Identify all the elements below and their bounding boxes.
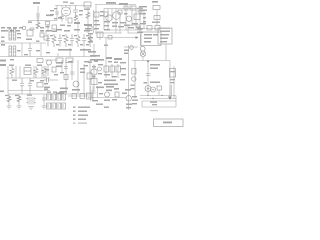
resistor R22 (17, 96, 21, 102)
box B1 (56, 58, 63, 63)
capacitor C7 (138, 8, 142, 12)
resistor R5 (118, 10, 122, 14)
relay box K1 (158, 28, 172, 44)
text (0, 91, 4, 93)
wire (45, 59, 58, 61)
labels (9, 65, 14, 66)
switch bank S1 labels (47, 92, 51, 93)
ground (17, 106, 22, 109)
marks (80, 68, 85, 70)
wire (7, 78, 9, 94)
capacitor C26 (60, 14, 64, 22)
capacitor C18 (20, 78, 24, 91)
wire (147, 61, 149, 96)
labels (84, 61, 89, 62)
text inside box top (150, 64, 160, 66)
wire (142, 96, 176, 108)
tube V4 (126, 16, 131, 21)
relay coil on line (108, 36, 112, 40)
resistor R15 (132, 69, 136, 75)
capacitor C4 (73, 6, 78, 19)
parts row wire (68, 95, 92, 97)
ground (7, 106, 12, 109)
note rows (144, 34, 152, 36)
jack J0 (22, 26, 26, 30)
wire stubs (22, 91, 30, 95)
wire (93, 10, 95, 33)
capacitor C6 (124, 6, 128, 10)
arrowhead (136, 36, 139, 39)
transistor Q1 (73, 81, 79, 87)
resistor R9 box (27, 30, 33, 36)
jack J2 (47, 60, 52, 65)
diode D1 (147, 26, 152, 31)
resistor R21 (7, 96, 11, 102)
capacitor C8 (154, 16, 160, 20)
capacitor C14 (58, 34, 62, 47)
transformer T3 box (24, 68, 31, 75)
capacitor C5 (104, 12, 108, 17)
cluster box (37, 59, 43, 63)
transformer T2 box (130, 6, 136, 10)
capacitor C19 (28, 78, 32, 91)
node ANT text (33, 2, 40, 4)
ground (28, 107, 34, 110)
wire (42, 30, 46, 36)
title block (154, 119, 184, 127)
text rows (88, 51, 96, 53)
value labels row (1, 27, 5, 29)
resistor R26 (68, 18, 72, 23)
switch bank S2 (47, 103, 51, 109)
wire (169, 61, 171, 99)
wire (173, 66, 175, 99)
resistor R6 (134, 14, 140, 20)
junction (161, 95, 162, 96)
marks (88, 33, 93, 35)
box B3 (170, 69, 176, 78)
capacitor C28 (46, 22, 50, 26)
text (44, 87, 50, 89)
labels (112, 99, 117, 100)
wire (95, 4, 136, 6)
text rows (58, 49, 72, 51)
text specks (94, 20, 99, 21)
capacitor C15 (70, 34, 74, 47)
wire stubs (58, 44, 94, 57)
note text line 1 (139, 6, 147, 7)
coil L4 (9, 29, 12, 40)
wire (134, 61, 136, 99)
arrow (168, 97, 172, 100)
wire (140, 34, 142, 46)
value label (46, 26, 50, 28)
switch bank S1 (47, 94, 51, 100)
resistor R14 (97, 32, 103, 38)
crystal Y1 (153, 6, 160, 10)
component marks (106, 57, 112, 59)
legend line 4 (73, 119, 76, 120)
resistor R19 (91, 79, 97, 85)
resistor R18 (42, 66, 46, 78)
wire (box top) (132, 60, 170, 62)
extra value labels (100, 11, 104, 12)
coil L5 (13, 29, 16, 40)
lamp L3 (132, 77, 136, 81)
capacitor C12 (44, 36, 48, 40)
wires (106, 64, 118, 78)
resistor R1 (36, 22, 40, 29)
tube V2 (106, 15, 112, 21)
wire (arrow to power block) (104, 37, 137, 39)
text (150, 82, 160, 84)
wire (104, 6, 144, 33)
resistor R27 (115, 92, 119, 97)
wire (62, 6, 70, 10)
labels (5, 95, 9, 96)
wire (87, 7, 89, 33)
marks right (132, 96, 137, 97)
resistor R24 (80, 94, 85, 99)
marks bottom (60, 88, 68, 90)
wire (8, 90, 50, 92)
terminal box TB1 (141, 32, 161, 46)
wire (140, 95, 176, 97)
tube V1 (62, 7, 71, 16)
labels around tube (63, 2, 68, 3)
resistor R28 (74, 15, 78, 21)
value labels (26, 39, 32, 41)
capacitor C21 (70, 72, 75, 74)
wire (128, 45, 130, 110)
capacitor C13 (46, 34, 50, 47)
wire (37, 6, 39, 28)
label text (106, 2, 116, 4)
wire (47, 65, 49, 76)
junction (37, 20, 38, 21)
transistor Q4 (126, 96, 131, 101)
meter M1 (140, 46, 145, 51)
note text line 3 (139, 13, 145, 14)
resistor R12 (76, 34, 80, 47)
resistor R4 (94, 12, 99, 17)
component cluster (106, 86, 114, 88)
cluster box (87, 73, 92, 79)
capacitor C20 (64, 67, 68, 69)
wire (95, 32, 122, 34)
shield can box (128, 25, 140, 33)
legend line 2 (73, 111, 76, 112)
capacitor C2 (29, 27, 35, 31)
rectifier V6 (151, 87, 156, 92)
cluster box (37, 83, 43, 88)
wire (56, 6, 58, 21)
wire (124, 46, 138, 48)
wire (9, 94, 19, 106)
resistor R2 (52, 25, 57, 29)
labels (12, 80, 17, 81)
wire (142, 57, 144, 61)
wire (55, 5, 91, 7)
wire (141, 28, 170, 30)
box B4 (87, 93, 93, 99)
legend line 5 (73, 123, 76, 124)
junction arrow on box top (147, 61, 150, 63)
capacitor C17 (146, 74, 151, 76)
junction (152, 98, 153, 99)
wire (95, 5, 97, 34)
wire (104, 8, 143, 10)
capacitor C27 (91, 91, 96, 93)
wire (28, 20, 57, 22)
box B2 (66, 58, 73, 63)
label row (46, 30, 52, 32)
component marks (40, 27, 44, 29)
wire verticals (8, 66, 46, 78)
diode block D3 (157, 86, 162, 90)
resistor R10 (52, 34, 56, 47)
text (0, 64, 6, 66)
text specks (104, 21, 110, 22)
legend line 1 (73, 107, 76, 108)
marks above (122, 93, 127, 95)
resistor R20 (116, 66, 121, 72)
marks below box (171, 79, 176, 80)
node text (1, 30, 5, 32)
resistor R16 (10, 66, 14, 78)
legend line 3 (73, 115, 76, 116)
capacitor C10 (28, 43, 32, 57)
resistor R30 (88, 26, 92, 31)
wire (90, 32, 100, 43)
junction (147, 95, 148, 96)
resistor R11 (64, 34, 68, 47)
rectifier V5 (145, 86, 151, 92)
label text (152, 1, 158, 3)
wire (88, 97, 126, 99)
capacitor C25 (42, 98, 46, 100)
wire (long bottom bus) (8, 93, 92, 95)
wire (142, 100, 176, 102)
transformer T4 (26, 97, 36, 105)
wire (62, 60, 90, 94)
transistor Q2 (91, 69, 97, 75)
text above title block (150, 110, 158, 111)
lamp L1 (130, 46, 134, 50)
resistor R13 (88, 34, 92, 47)
coil L7 (13, 46, 16, 56)
wire (65, 16, 67, 21)
diode D2 (155, 26, 160, 31)
wire (47, 24, 49, 32)
capacitor C1 (36, 14, 40, 18)
component marks (84, 24, 92, 26)
title text (163, 122, 172, 124)
capacitor C16 (82, 34, 86, 47)
resistor R3 (86, 12, 90, 19)
marks below (126, 104, 132, 105)
component marks (152, 22, 160, 23)
wire (158, 90, 160, 96)
marks (124, 50, 129, 52)
wire (140, 98, 176, 100)
transformer T1 box (84, 2, 91, 7)
capacitor C11 (40, 33, 44, 37)
transistor Q3 (105, 92, 110, 97)
wire (104, 29, 142, 31)
extra labels (98, 64, 103, 65)
text (0, 60, 6, 62)
text specks left of box (120, 62, 126, 63)
wire (165, 44, 167, 61)
wires (90, 86, 97, 101)
wire (93, 64, 95, 90)
text rows (104, 80, 116, 82)
wire (170, 85, 172, 96)
ground (42, 106, 47, 109)
tube V3 (113, 12, 121, 20)
capacitor C22 (44, 78, 58, 83)
capacitor C3 (55, 12, 59, 14)
wire (40, 43, 42, 57)
wire (0, 42, 46, 44)
wire (long bus) (0, 56, 96, 58)
value label (74, 22, 80, 24)
labels (60, 25, 65, 26)
wire (105, 38, 107, 64)
marks (99, 93, 103, 94)
note text line 2 (139, 10, 147, 11)
resistor R25 (64, 75, 68, 80)
wire (77, 20, 79, 33)
resistor R23 (72, 94, 77, 99)
wire (43, 94, 45, 106)
resistor R17 (34, 66, 38, 78)
text (56, 62, 63, 64)
text (96, 87, 104, 89)
label text (46, 15, 53, 17)
text inside bottom run (150, 102, 157, 103)
capacitor C24 (110, 66, 115, 72)
wire (156, 10, 158, 27)
small transistor Q8 (98, 67, 102, 71)
resistor R29 (52, 67, 56, 72)
capacitor C23 (104, 66, 109, 72)
wire (6, 77, 50, 79)
wire (21, 43, 23, 57)
marks (137, 28, 143, 30)
pilot lamp L2 (140, 51, 146, 57)
coil L6 (9, 46, 12, 56)
